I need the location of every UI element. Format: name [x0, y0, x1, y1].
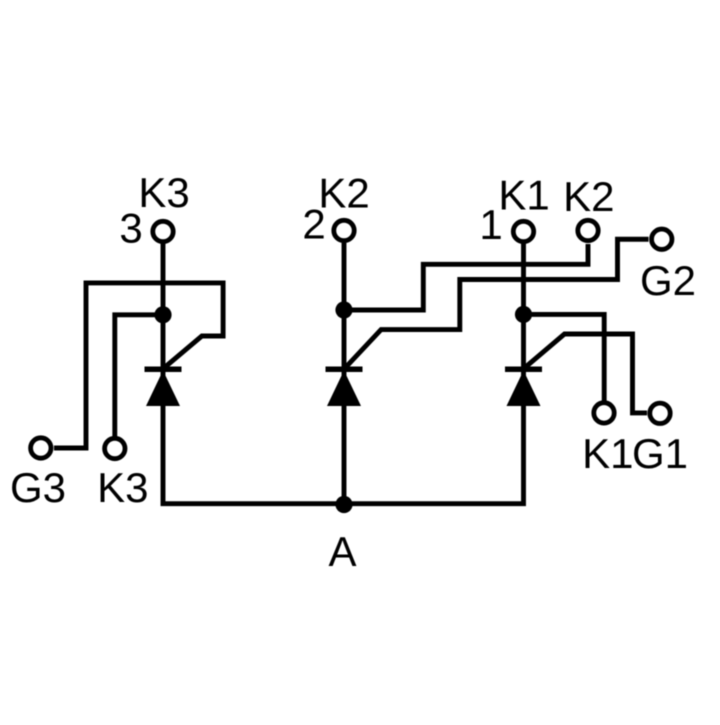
terminal circle 2 / K2 (top middle): [334, 220, 354, 240]
wire: left cathode vertical K3 down, anode bus, right cathode vertical K1 up: [163, 244, 524, 504]
svg-text:K1: K1: [582, 430, 633, 477]
wire: auxiliary cathode K3 from junction to lower-left terminal: [115, 315, 163, 440]
svg-text:1: 1: [479, 201, 502, 248]
svg-text:G1: G1: [632, 430, 688, 477]
wire: gate G1 from thyristor V1 to lower-right terminal: [525, 334, 647, 413]
terminal circle K2 auxiliary (top, right of K1): [578, 220, 598, 240]
thyristor V3 cathode bar: [145, 367, 182, 373]
junction node: right thyristor cathode: [515, 306, 532, 323]
terminal circle G2 (right side): [652, 229, 672, 249]
terminal circle K1 auxiliary (bottom right): [594, 403, 614, 423]
svg-text:K3: K3: [97, 464, 148, 511]
thyristor V1 triangle: [507, 371, 541, 407]
thyristor V2 cathode bar: [326, 367, 363, 373]
terminal circle 3 / K3 (top left): [153, 221, 173, 241]
svg-text:K3: K3: [138, 169, 189, 216]
terminal circle 1 / K1 (top right): [513, 221, 533, 241]
thyristor V2 triangle: [327, 371, 361, 407]
svg-text:K2: K2: [318, 170, 369, 217]
junction node: middle thyristor cathode: [335, 301, 352, 318]
wire: gate G3 from thyristor V3 up over to left side terminal: [54, 283, 223, 448]
svg-text:G2: G2: [640, 257, 696, 304]
junction node A on anode bus: [335, 496, 352, 513]
wire: auxiliary cathode K1 from junction to lower-right terminal: [524, 314, 605, 401]
wire: middle cathode vertical K2 down to anode bus: [342, 243, 347, 504]
wire: auxiliary cathode K2 from junction up to top-right terminal: [344, 244, 588, 310]
svg-text:K1: K1: [498, 172, 549, 219]
svg-text:K2: K2: [563, 173, 614, 220]
terminal circle G3 (bottom left): [31, 438, 51, 458]
thyristor V3 triangle: [146, 371, 180, 407]
svg-text:3: 3: [119, 205, 142, 252]
junction node: left thyristor cathode: [154, 306, 171, 323]
terminal circle K3 auxiliary (bottom left): [105, 438, 125, 458]
svg-text:G3: G3: [10, 464, 66, 511]
svg-text:A: A: [328, 528, 356, 575]
svg-text:2: 2: [302, 201, 325, 248]
terminal circle G1 (bottom right): [650, 403, 670, 423]
thyristor V1 cathode bar: [505, 367, 542, 373]
wire: gate G2 from thyristor V2 to right-side terminal: [346, 239, 649, 367]
